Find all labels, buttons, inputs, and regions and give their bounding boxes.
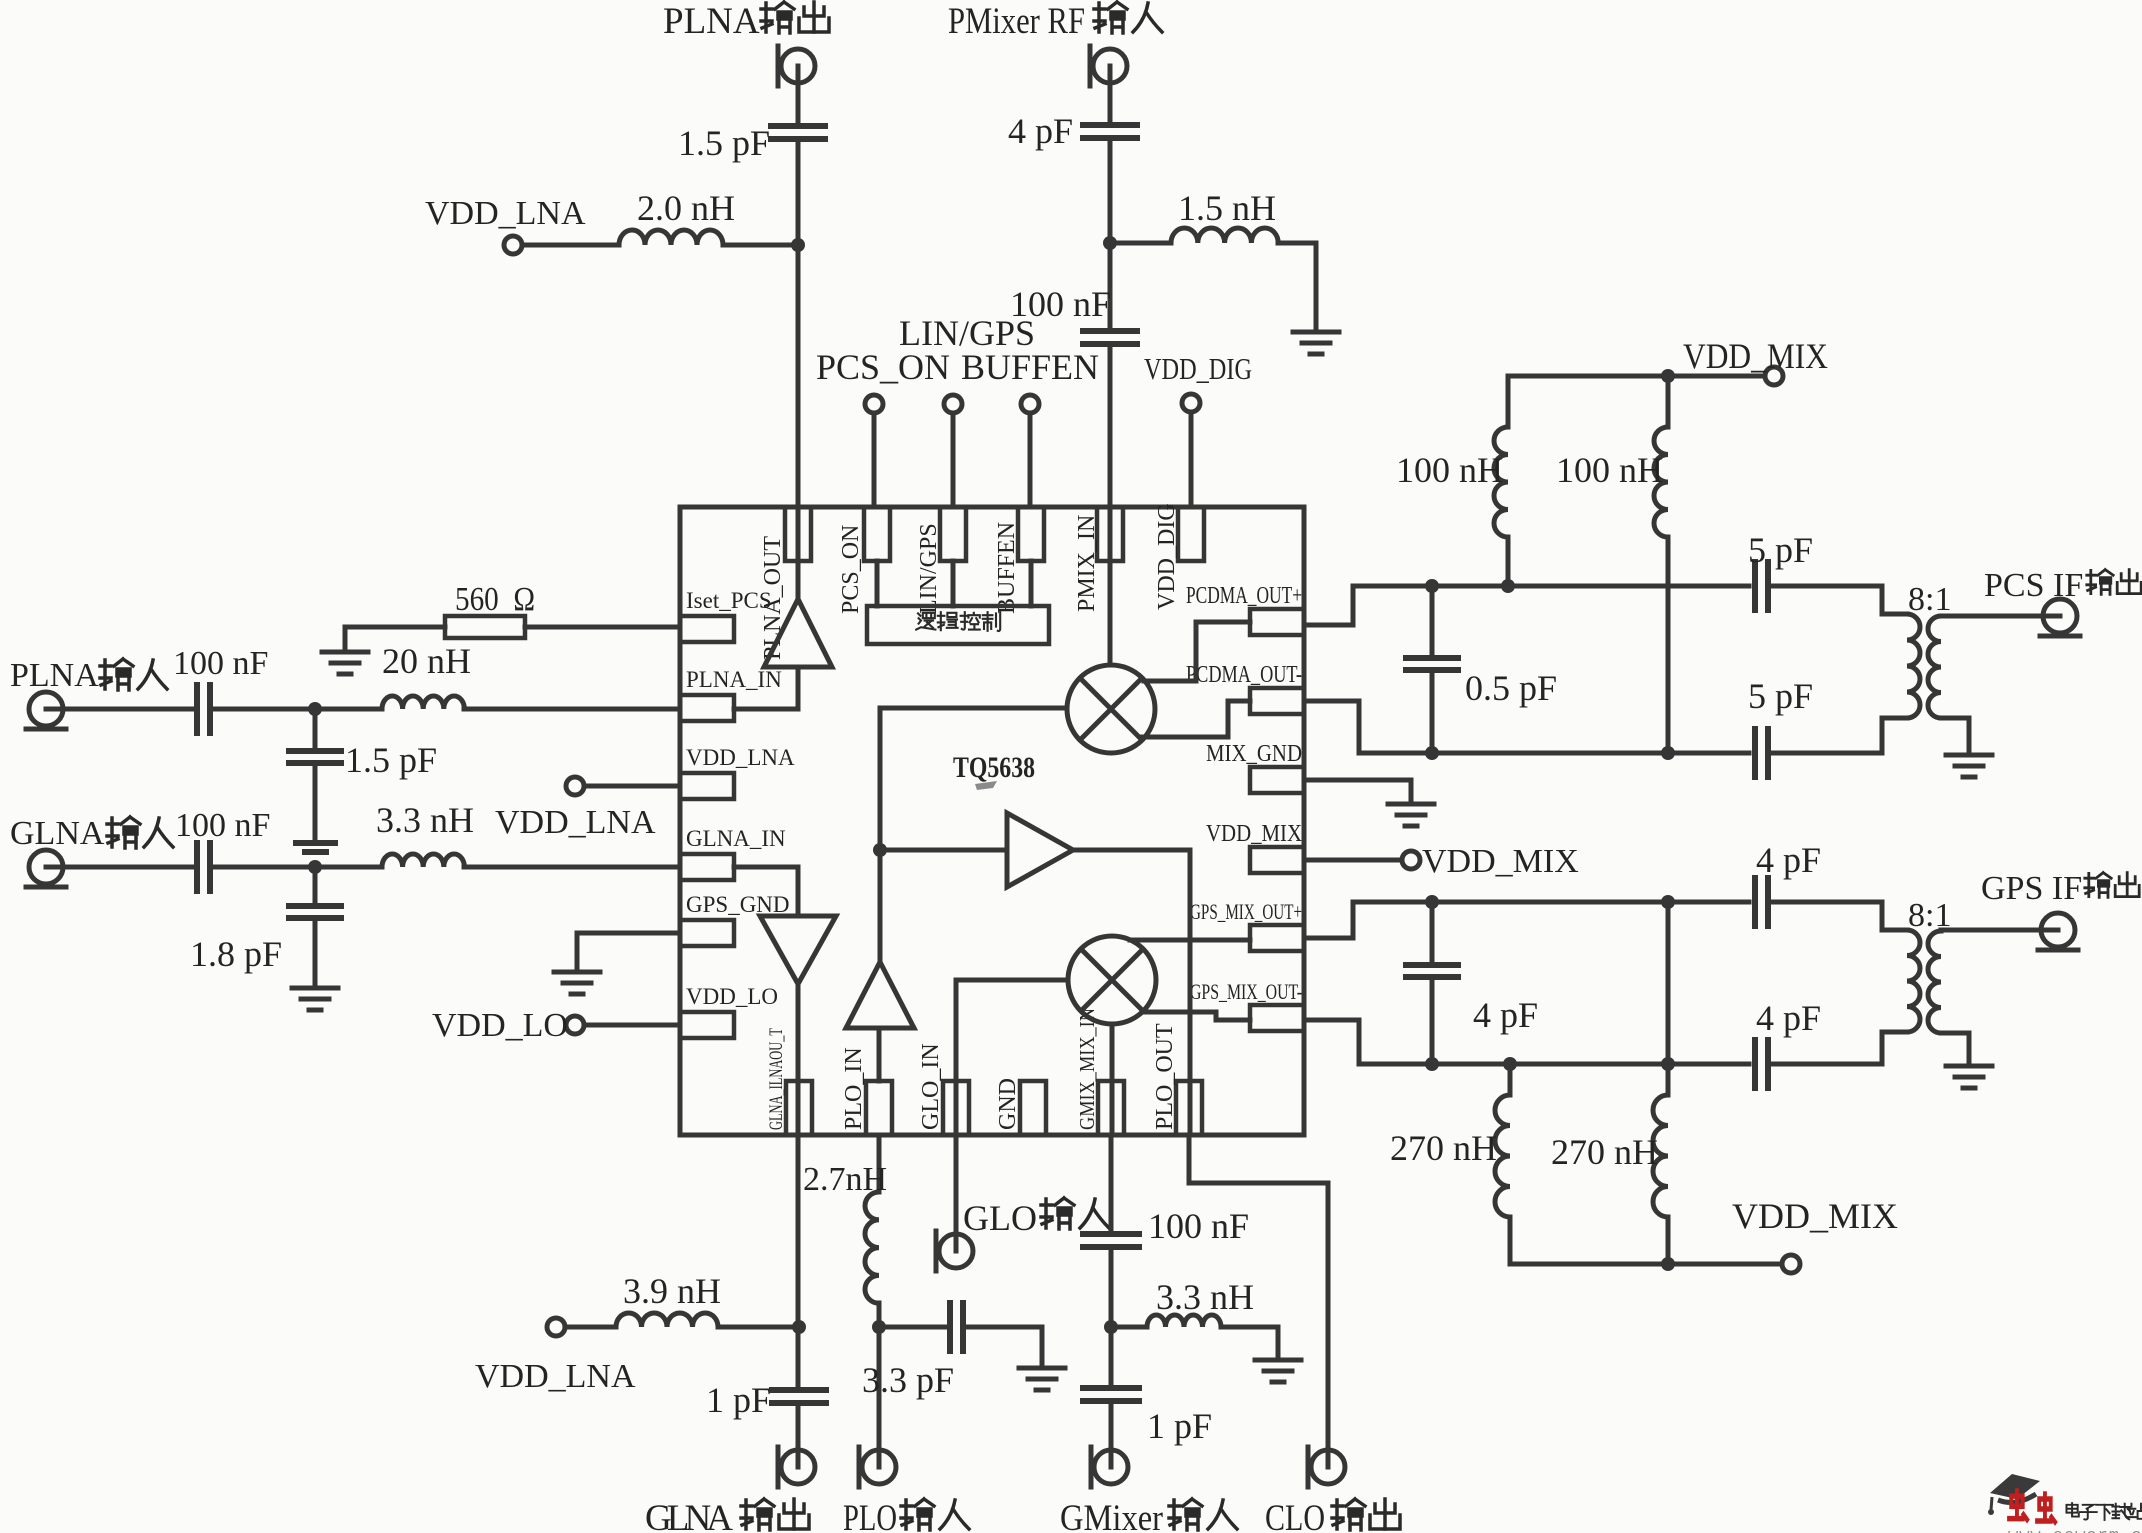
svg-text:PLO_OUT: PLO_OUT <box>1152 1023 1178 1130</box>
node junction GLNA line / 3.9nH <box>792 1320 806 1334</box>
wire GLNA_IN pin to amp <box>734 867 798 916</box>
svg-text:GPS_MIX_OUT-: GPS_MIX_OUT- <box>1190 979 1302 1004</box>
ground (PCS transformer) <box>1946 755 1992 777</box>
transformer GPS 8:1 primary <box>1907 930 1920 1032</box>
pin GLNA_ILNAOU_T (bottom) <box>786 1081 812 1135</box>
node junction GPS top / 270nH <box>1661 895 1675 909</box>
wire GLNA amp to GLNA_ILNAOU_T pin <box>796 984 801 1135</box>
svg-text:4 pF: 4 pF <box>1473 995 1538 1035</box>
capacitor C 0.5pF <box>1406 586 1458 753</box>
svg-text:560 Ω: 560 Ω <box>455 581 535 618</box>
wire GPS_MIX_OUT- to GPS bottom line <box>1304 1020 1749 1064</box>
wire GLO_IN pin to GLO port <box>954 1135 959 1251</box>
wire VDD_MIX top bus <box>1508 374 1765 379</box>
ground (3.3nH) <box>1255 1360 1301 1382</box>
svg-text:100 nF: 100 nF <box>175 807 270 844</box>
watermark chongchong (red) <box>2009 1491 2027 1520</box>
transformer GPS 8:1 secondary <box>1928 931 1941 1033</box>
svg-text:PLO: PLO <box>843 1498 897 1533</box>
wire 3.9nH to GLNA line <box>718 1325 799 1330</box>
wire PCDMA_OUT- to PCS bottom line <box>1304 701 1749 753</box>
wire cap to GLNA output port <box>796 1404 801 1467</box>
svg-text:GLNA_ILNAOU_T: GLNA_ILNAOU_T <box>766 1028 787 1130</box>
op-amp PLNA amp <box>764 599 832 667</box>
svg-text:VDD_LO: VDD_LO <box>686 984 778 1009</box>
svg-text:4 pF: 4 pF <box>1008 111 1073 151</box>
wire PMIX bus lower <box>1108 345 1113 665</box>
pin GPS_MIX_OUT- (right) <box>1250 1005 1304 1031</box>
wire LIN/GPS pin to logic <box>951 561 956 606</box>
inductor L 270nH (right) <box>1653 902 1668 1264</box>
node junction VDD_MIX bus / 100nH <box>1661 369 1675 383</box>
wire GLO_IN pin to GPS mixer <box>956 980 1067 1135</box>
node junction GMixer / 3.3nH <box>1104 1320 1118 1334</box>
port GLNA input <box>26 850 66 887</box>
svg-text:PCS_ON: PCS_ON <box>838 525 864 614</box>
wire LO junction to GPS LO amp <box>880 848 1007 853</box>
wire LO bus to PCS mixer <box>880 706 1067 711</box>
pin VDD_LO (left) <box>680 1012 734 1038</box>
wire GPS_GND to ground <box>577 933 680 970</box>
svg-text:PCS IF: PCS IF <box>1984 567 2083 604</box>
pin VDD_LNA (left) <box>680 773 734 799</box>
inductor L 1.5nH <box>1171 228 1278 243</box>
capacitor C 100nF (GMixer) <box>1083 1234 1139 1247</box>
pin BUFFEN (top) <box>1018 507 1044 561</box>
port VDD_LO <box>566 1016 584 1034</box>
svg-text:GPS IF: GPS IF <box>1981 870 2082 907</box>
svg-text:PCDMA_OUT-: PCDMA_OUT- <box>1186 662 1302 688</box>
port VDD_MIX (bottom) <box>1782 1255 1800 1273</box>
wire PCDMA_OUT+ to PCS top line <box>1304 586 1749 625</box>
port CLO output <box>1308 1447 1345 1487</box>
wire LIN/GPS to chip <box>951 413 956 507</box>
svg-text:VDD_LNA: VDD_LNA <box>475 1358 636 1395</box>
ground (GPS transformer) <box>1946 1066 1992 1088</box>
port VDD_MIX (top) <box>1765 367 1783 385</box>
node junction PMIX / 1.5nH <box>1103 236 1117 250</box>
svg-text:270 nH: 270 nH <box>1390 1128 1497 1168</box>
node junction PLNA bus / VDD_LNA <box>791 238 805 252</box>
label logic control (CJK) <box>916 612 1000 631</box>
capacitor C 100nF (GLNA in) <box>197 843 210 891</box>
svg-text:1 pF: 1 pF <box>706 1380 771 1420</box>
wire PMIX bus mid <box>1108 139 1113 330</box>
svg-text:GLNA: GLNA <box>10 815 105 852</box>
wire GLNA input to cap <box>46 865 194 870</box>
capacitor C 4pF (GPS top) <box>1755 878 1768 926</box>
wire cap to 3.3nH <box>213 865 382 870</box>
svg-text:VDD_LNA: VDD_LNA <box>425 195 586 232</box>
wire 4pF to GPS transformer primary bottom <box>1771 1032 1907 1064</box>
op-amp GLNA amp (inverted) <box>760 916 836 984</box>
wire GMixer line mid <box>1109 1248 1114 1386</box>
inductor L 100nH (left) <box>1494 376 1508 586</box>
svg-text:4 pF: 4 pF <box>1756 998 1821 1038</box>
ground (GPS_GND) <box>554 972 600 994</box>
inductor L 2.7nH (vertical) <box>865 1192 879 1303</box>
pin GPS_MIX_OUT+ (right) <box>1250 925 1304 951</box>
svg-text:www.eeworm.com: www.eeworm.com <box>2008 1527 2142 1533</box>
svg-text:3.3 pF: 3.3 pF <box>862 1360 954 1400</box>
svg-text:LIN/GPS: LIN/GPS <box>916 523 942 614</box>
ground (Iset_PCS) <box>322 652 368 674</box>
ground (1.8pF) <box>292 988 338 1010</box>
wire PLO_OUT pin to CLO port <box>1189 1135 1328 1467</box>
port BUFFEN <box>1021 395 1039 413</box>
wire port to 3.9nH <box>565 1325 616 1330</box>
svg-text:GPS_MIX_OUT+: GPS_MIX_OUT+ <box>1190 899 1302 924</box>
inductor L 270nH (left) <box>1495 1064 1510 1264</box>
svg-text:1 pF: 1 pF <box>1147 1406 1212 1446</box>
svg-text:GPS_GND: GPS_GND <box>686 892 790 917</box>
wire GMixer line lower <box>1109 1402 1114 1467</box>
svg-text:PLNA: PLNA <box>663 1 760 42</box>
wire PLNA input to cap <box>46 707 194 712</box>
pin Iset_PCS (left) <box>680 616 734 642</box>
svg-text:100 nF: 100 nF <box>1148 1206 1249 1246</box>
node junction GLNA in <box>308 860 322 874</box>
pin VDD_DIG (top) <box>1178 507 1204 561</box>
capacitor C 100nF (PLNA in) <box>197 685 210 733</box>
capacitor C 1.5pF (interstage) <box>289 709 341 852</box>
capacitor C 1.8pF <box>289 867 341 986</box>
node junction PLO line / 3.3pF <box>872 1320 886 1334</box>
svg-text:TQ5638: TQ5638 <box>953 751 1035 784</box>
node junction PCS bottom / 0.5pF <box>1425 746 1439 760</box>
svg-text:20 nH: 20 nH <box>382 641 471 681</box>
svg-text:PLNA_IN: PLNA_IN <box>686 667 782 692</box>
wire secondary top to PCS IF port <box>1941 614 2060 619</box>
pin PLNA_IN (left) <box>680 695 734 721</box>
wire PCS_ON to chip <box>872 413 877 507</box>
svg-text:2.0 nH: 2.0 nH <box>637 188 735 228</box>
svg-text:GMIX_MIX_IN: GMIX_MIX_IN <box>1075 1008 1099 1130</box>
svg-text:5 pF: 5 pF <box>1748 530 1813 570</box>
pin GLO_IN (bottom) <box>943 1081 969 1135</box>
port PCS IF output <box>2040 599 2080 636</box>
svg-text:VDD_DIG: VDD_DIG <box>1154 503 1180 610</box>
watermark site name (CJK) <box>2066 1503 2142 1520</box>
watermark cap icon <box>1988 1474 2040 1515</box>
wire PLNA_IN pin to amp <box>734 667 798 709</box>
pin GMIX_MIX_IN (bottom) <box>1098 1081 1124 1135</box>
svg-text:GMixer: GMixer <box>1060 1498 1163 1533</box>
capacitor C 1pF (GMixer) <box>1083 1388 1139 1401</box>
wire GPS LO amp to PLO_OUT pin <box>1073 850 1190 1135</box>
wire VDD_LNA to pin <box>584 784 680 789</box>
capacitor C 4pF (GPS shunt) <box>1406 902 1458 1064</box>
wire GMixer junction to 3.3nH <box>1111 1325 1147 1330</box>
inductor L 3.3nH (GMixer) <box>1147 1315 1221 1327</box>
svg-text:5 pF: 5 pF <box>1748 676 1813 716</box>
svg-text:270 nH: 270 nH <box>1551 1132 1658 1172</box>
inductor L 20nH <box>382 696 464 709</box>
resistor R 560 ohm <box>445 616 525 638</box>
wire L 2.0nH to PLNA bus <box>723 243 798 248</box>
wire secondary bottom to ground (PCS) <box>1941 718 1969 753</box>
pin PCDMA_OUT+ (right) <box>1250 609 1304 635</box>
svg-text:GLO: GLO <box>963 1198 1037 1238</box>
capacitor C 3.3pF <box>950 1303 963 1351</box>
logic control block <box>867 606 1049 644</box>
node junction GPS bottom / 4pF <box>1425 1057 1439 1071</box>
wire 3.3pF to ground <box>966 1327 1042 1366</box>
wire PLO input line lower <box>877 1303 882 1467</box>
svg-text:VDD_LNA: VDD_LNA <box>495 804 656 841</box>
wire GPS mixer to GMIX_MIX_IN pin <box>1110 1025 1115 1135</box>
wire VDD_MIX bottom bus <box>1510 1262 1782 1267</box>
mixer PCS <box>1067 665 1155 753</box>
svg-text:8:1: 8:1 <box>1908 581 1951 618</box>
pin PLO_IN (bottom) <box>866 1081 892 1135</box>
svg-text:4 pF: 4 pF <box>1756 840 1821 880</box>
svg-text:3.9 nH: 3.9 nH <box>623 1271 721 1311</box>
svg-text:1.5 nH: 1.5 nH <box>1178 188 1276 228</box>
svg-text:100 nH: 100 nH <box>1556 450 1663 490</box>
svg-text:PLNA: PLNA <box>10 657 99 694</box>
wire ground tail to resistor <box>345 627 445 652</box>
port VDD_LNA (left) <box>566 777 584 795</box>
svg-text:BUFFEN: BUFFEN <box>994 522 1020 614</box>
node junction PCS top / 0.5pF <box>1425 579 1439 593</box>
port GLO input <box>936 1231 973 1271</box>
svg-text:GLO_IN: GLO_IN <box>918 1043 944 1130</box>
transformer PCS 8:1 secondary <box>1928 616 1941 718</box>
svg-text:VDD_MIX: VDD_MIX <box>1683 336 1828 376</box>
pin MIX_GND (right) <box>1250 767 1304 793</box>
port GLNA output <box>778 1447 815 1487</box>
mixer GPS <box>1068 936 1156 1024</box>
svg-text:0.5 pF: 0.5 pF <box>1465 668 1557 708</box>
wire resistor to Iset_PCS pin <box>525 625 680 630</box>
svg-text:VDD_LNA: VDD_LNA <box>686 745 795 770</box>
wire VDD_MIX pin to port <box>1304 858 1402 863</box>
wire 5pF to transformer primary top <box>1771 586 1907 614</box>
wire LO bus vertical <box>878 708 883 962</box>
node junction PCS bottom / 100nH <box>1661 746 1675 760</box>
port PLO input <box>859 1447 896 1487</box>
wire secondary top to GPS IF port <box>1941 928 2058 933</box>
wire VDD_LNA to L 2.0nH <box>522 243 619 248</box>
wire MIX_GND to ground <box>1304 780 1411 802</box>
pin GLNA_IN (left) <box>680 854 734 880</box>
inductor L 2.0nH <box>619 230 723 245</box>
inductor L 3.9nH <box>616 1313 718 1327</box>
wire PCS mixer to PCDMA_OUT+ pin <box>1144 622 1250 681</box>
wire GMixer line upper <box>1109 1135 1114 1232</box>
svg-text:3.3 nH: 3.3 nH <box>1156 1277 1254 1317</box>
port PLNA output <box>778 46 815 86</box>
capacitor C 1.5pF (PLNA out) <box>771 126 825 139</box>
svg-text:VDD_MIX: VDD_MIX <box>1422 843 1579 880</box>
svg-text:VDD_LO: VDD_LO <box>432 1007 568 1044</box>
svg-text:2.7nH: 2.7nH <box>803 1161 887 1198</box>
inductor L 3.3nH (GLNA) <box>382 854 464 867</box>
svg-text:PCDMA_OUT+: PCDMA_OUT+ <box>1186 583 1302 609</box>
pin PCDMA_OUT- (right) <box>1250 688 1304 714</box>
wire PLO input line upper <box>877 1135 882 1192</box>
wire PLNA output bus upper <box>796 66 801 125</box>
port PMixer RF input <box>1090 46 1127 86</box>
wire PLNA output bus lower <box>796 140 801 599</box>
capacitor C 5pF (top) <box>1755 562 1768 610</box>
wire PLO junction to 3.3pF <box>879 1325 947 1330</box>
capacitor C 1pF (GLNA out) <box>772 1390 826 1403</box>
chip U1 TQ5638 outline <box>680 507 1304 1135</box>
pin PLO_OUT (bottom) <box>1176 1081 1202 1135</box>
wire VDD_LO to pin <box>584 1023 680 1028</box>
svg-text:GND: GND <box>995 1078 1021 1130</box>
wire secondary bottom to ground (GPS) <box>1941 1033 1969 1064</box>
port PCS_ON <box>865 395 883 413</box>
svg-text:Iset_PCS: Iset_PCS <box>686 588 772 613</box>
wire PLO_IN pin to buffer <box>877 1028 882 1081</box>
svg-text:PMixer RF: PMixer RF <box>948 1 1085 42</box>
svg-text:100 nH: 100 nH <box>1396 450 1503 490</box>
wire BUFFEN to chip <box>1028 413 1033 507</box>
pin VDD_MIX (right) <box>1250 847 1304 873</box>
port GMixer input <box>1091 1447 1128 1487</box>
port VDD_LNA (bottom) <box>547 1318 565 1336</box>
pin LIN/GPS (top) <box>940 507 966 561</box>
node junction GPS top / 4pF <box>1425 895 1439 909</box>
svg-text:1.5 pF: 1.5 pF <box>678 123 770 163</box>
wire GPS mixer to GPS_MIX_OUT- pin <box>1142 1012 1250 1020</box>
wire PCS_ON pin to logic <box>875 561 880 606</box>
node junction VDD_MIX bottom bus <box>1661 1257 1675 1271</box>
svg-text:BUFFEN: BUFFEN <box>961 347 1099 387</box>
wire 20nH to PLNA_IN pin <box>464 707 680 712</box>
pin PMIX_IN (top) <box>1097 507 1123 561</box>
capacitor C 4pF (PMIX) <box>1083 125 1137 138</box>
wire GLNA output line <box>796 1135 801 1387</box>
capacitor C 5pF (bottom) <box>1755 729 1768 777</box>
port VDD_LNA (top) <box>504 236 522 254</box>
node junction GPS bottom / left 270nH <box>1503 1057 1517 1071</box>
wire L 1.5nH to ground <box>1278 243 1316 330</box>
node junction PCS top / 100nH <box>1501 579 1515 593</box>
svg-text:PCS_ON: PCS_ON <box>816 347 950 387</box>
port VDD_MIX (right of chip) <box>1402 851 1420 869</box>
inductor L 100nH (right) <box>1654 376 1668 753</box>
capacitor C 100nF (PMIX) <box>1083 331 1137 344</box>
port VDD_DIG <box>1182 394 1200 412</box>
pin PLNA_OUT (top) <box>785 507 811 561</box>
svg-text:CLO: CLO <box>1265 1498 1325 1533</box>
ground (1.5nH) <box>1293 332 1339 354</box>
svg-text:VDD_DIG: VDD_DIG <box>1144 351 1252 386</box>
capacitor C 4pF (GPS bottom) <box>1755 1040 1768 1088</box>
node junction PLNA in <box>308 702 322 716</box>
wire cap to 20nH <box>213 707 382 712</box>
wire BUFFEN pin to logic <box>1029 561 1034 606</box>
wire 5pF to transformer primary bottom <box>1771 718 1907 753</box>
pin GPS_GND (left) <box>680 920 734 946</box>
pin GND (bottom) <box>1020 1081 1046 1135</box>
ground (MIX_GND) <box>1388 804 1434 826</box>
svg-text:1.8 pF: 1.8 pF <box>190 934 282 974</box>
wire GPS_MIX_OUT+ to GPS top line <box>1304 902 1749 938</box>
wire 3.3nH to ground <box>1221 1327 1278 1358</box>
transformer PCS 8:1 primary <box>1907 614 1920 718</box>
op-amp GPS LO amp <box>1007 813 1073 887</box>
port PLNA input <box>26 692 66 729</box>
svg-text:GLNA: GLNA <box>645 1498 733 1533</box>
svg-text:PLO_IN: PLO_IN <box>841 1047 867 1130</box>
port GPS IF output <box>2038 913 2078 950</box>
wire GPS mixer to GPS_MIX_OUT+ pin <box>1130 938 1250 943</box>
svg-text:VDD_MIX: VDD_MIX <box>1206 821 1302 847</box>
svg-text:GLNA_IN: GLNA_IN <box>686 826 786 851</box>
svg-text:100 nF: 100 nF <box>173 645 268 682</box>
svg-text:VDD_MIX: VDD_MIX <box>1732 1196 1898 1236</box>
svg-text:3.3 nH: 3.3 nH <box>376 800 474 840</box>
pin PCS_ON (top) <box>864 507 890 561</box>
svg-text:MIX_GND: MIX_GND <box>1206 741 1302 767</box>
node junction LO bus <box>873 843 887 857</box>
wire PMIX junction to L 1.5nH <box>1110 241 1171 246</box>
smudge under TQ5638 <box>975 781 997 790</box>
port LIN/GPS <box>944 395 962 413</box>
wire PCS mixer to PCDMA_OUT- pin <box>1142 701 1250 737</box>
wire VDD_DIG to chip <box>1189 412 1194 507</box>
svg-text:PMIX_IN: PMIX_IN <box>1074 515 1100 612</box>
wire 4pF to GPS transformer primary top <box>1771 902 1907 930</box>
node junction GPS bottom / right 270nH <box>1661 1057 1675 1071</box>
wire PMIX bus upper <box>1108 66 1113 124</box>
ground (3.3pF) <box>1019 1368 1065 1390</box>
wire 3.3nH to GLNA_IN pin <box>464 865 680 870</box>
svg-text:1.5 pF: 1.5 pF <box>345 740 437 780</box>
op-amp PLO buffer <box>846 962 914 1028</box>
